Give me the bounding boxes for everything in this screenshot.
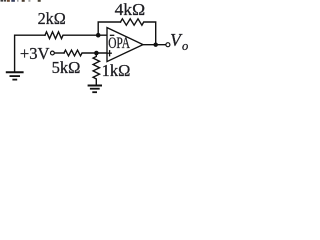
svg-text:1kΩ: 1kΩ: [102, 61, 131, 80]
svg-text:o: o: [182, 39, 188, 53]
svg-text:+3V: +3V: [20, 44, 50, 63]
svg-text:5kΩ: 5kΩ: [52, 58, 81, 77]
svg-text:OPA: OPA: [108, 35, 130, 52]
svg-text:4kΩ: 4kΩ: [115, 0, 146, 19]
svg-text:2kΩ: 2kΩ: [38, 9, 66, 28]
